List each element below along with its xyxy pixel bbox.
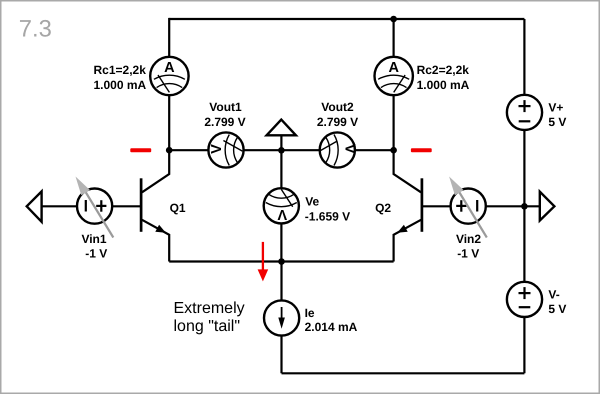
svg-text:A: A bbox=[388, 60, 399, 76]
source Vin1 bbox=[77, 189, 112, 224]
svg-text:2.799 V: 2.799 V bbox=[204, 115, 245, 129]
wire Q2 base row bbox=[422, 205, 468, 207]
svg-text:Q1: Q1 bbox=[170, 201, 186, 215]
svg-text:Vout1: Vout1 bbox=[209, 100, 242, 114]
svg-text:-1.659 V: -1.659 V bbox=[305, 209, 350, 223]
svg-text:long "tail": long "tail" bbox=[174, 318, 241, 335]
wire Rc2 bottom to node bbox=[393, 94, 395, 150]
junction node output bbox=[521, 203, 528, 210]
red minus mark right bbox=[411, 148, 432, 152]
svg-text:Rc2=2,2k: Rc2=2,2k bbox=[417, 63, 470, 77]
transistor Q1 bbox=[141, 150, 169, 261]
port input left bbox=[27, 191, 42, 221]
svg-text:V-: V- bbox=[548, 288, 559, 302]
svg-text:Vout2: Vout2 bbox=[321, 100, 354, 114]
svg-text:7.3: 7.3 bbox=[19, 15, 52, 42]
wire center column through Ve bbox=[280, 135, 282, 261]
svg-text:-1 V: -1 V bbox=[85, 247, 107, 261]
svg-text:Extremely: Extremely bbox=[174, 300, 245, 317]
current source Ie bbox=[264, 300, 299, 335]
wire tail row bbox=[169, 260, 393, 262]
junction node center mid bbox=[278, 147, 285, 154]
wire Rc2 top stub bbox=[393, 19, 395, 58]
ammeter Rc2 bbox=[375, 57, 413, 95]
wire input row left bbox=[42, 205, 141, 207]
svg-text:5 V: 5 V bbox=[548, 115, 566, 129]
svg-text:V+: V+ bbox=[548, 101, 563, 115]
red minus mark left bbox=[130, 148, 151, 152]
wire Rc1 bottom to node bbox=[168, 94, 170, 150]
transistor Q2 bbox=[394, 150, 422, 261]
ammeter Rc1 bbox=[150, 57, 188, 95]
svg-text:1.000 mA: 1.000 mA bbox=[417, 78, 470, 92]
wire bottom rail bbox=[282, 372, 525, 374]
red tail-current arrow bbox=[262, 242, 264, 271]
svg-text:Rc1=2,2k: Rc1=2,2k bbox=[94, 63, 147, 77]
port up (center) bbox=[267, 120, 296, 136]
svg-text:V: V bbox=[209, 144, 225, 154]
svg-text:Vin2: Vin2 bbox=[456, 232, 481, 246]
svg-text:2.014 mA: 2.014 mA bbox=[305, 320, 358, 334]
svg-text:Vin1: Vin1 bbox=[81, 232, 106, 246]
svg-text:V: V bbox=[342, 144, 358, 154]
svg-text:Ve: Ve bbox=[305, 195, 319, 209]
wire output row bbox=[468, 205, 540, 207]
svg-text:Q2: Q2 bbox=[375, 201, 391, 215]
port output right bbox=[540, 192, 555, 221]
svg-text:1.000 mA: 1.000 mA bbox=[94, 78, 147, 92]
wire Rc1 top stub bbox=[168, 18, 170, 58]
junction node top bbox=[390, 16, 397, 23]
source V+ bbox=[507, 95, 542, 130]
svg-text:5 V: 5 V bbox=[548, 302, 566, 316]
wire mid row (Vout1/Vout2) bbox=[169, 149, 393, 151]
svg-text:Ie: Ie bbox=[305, 306, 315, 320]
svg-text:V: V bbox=[277, 206, 287, 222]
needle Vin1 bbox=[80, 182, 114, 238]
svg-text:2.799 V: 2.799 V bbox=[317, 115, 358, 129]
svg-text:-1 V: -1 V bbox=[457, 247, 479, 261]
voltmeter Vout1 bbox=[208, 132, 243, 167]
voltmeter Ve bbox=[264, 188, 299, 223]
source V- bbox=[507, 282, 542, 317]
needle Vin2 bbox=[453, 182, 487, 238]
junction node Q1 collector bbox=[166, 147, 173, 154]
junction node tail bbox=[278, 258, 285, 265]
wire right rail bbox=[523, 19, 525, 373]
wire Ie column bbox=[280, 262, 282, 374]
voltmeter Vout2 bbox=[320, 132, 358, 167]
junction node Q2 collector bbox=[390, 147, 397, 154]
wire top rail bbox=[169, 18, 524, 20]
svg-text:A: A bbox=[164, 60, 175, 76]
source Vin2 bbox=[451, 189, 486, 224]
